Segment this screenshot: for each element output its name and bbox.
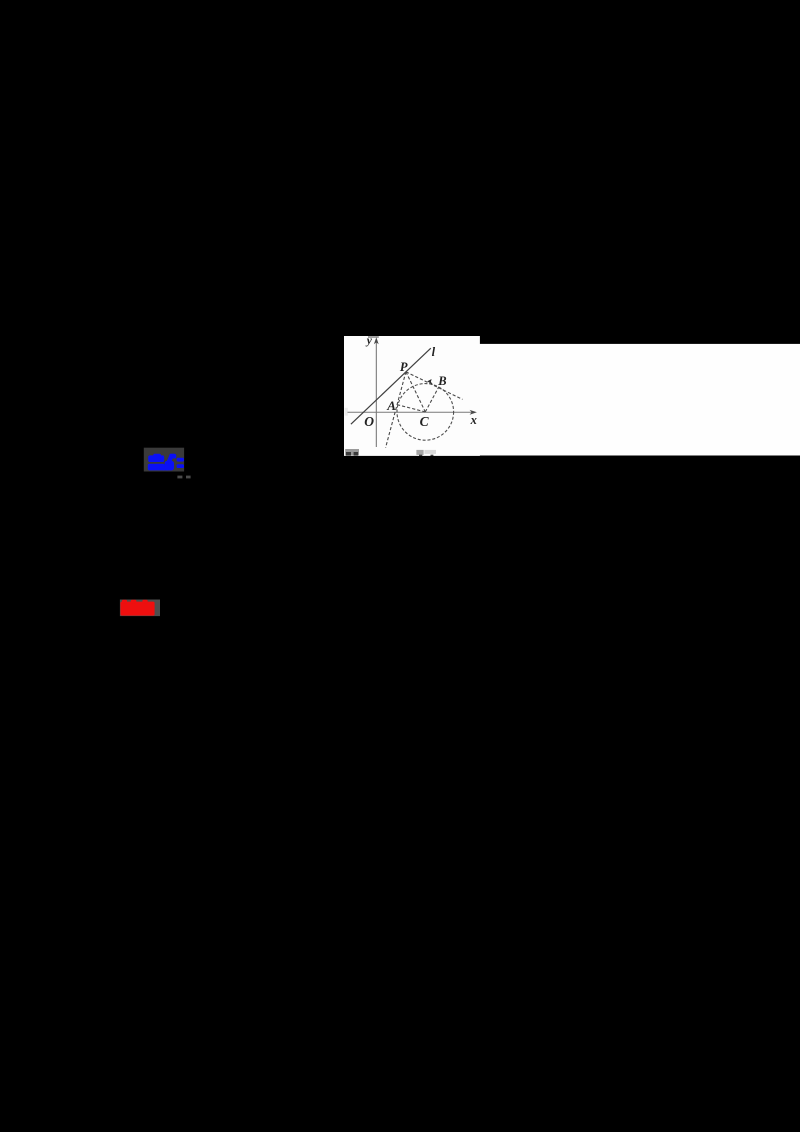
red heading highlight box xyxy=(120,600,160,617)
tangent line P through A extended downward (dashed) xyxy=(386,372,406,448)
red heading text (bold glyph shapes) xyxy=(120,600,154,616)
dark marks in bottom-left smudge xyxy=(346,452,351,456)
segment P to C (dashed) xyxy=(406,372,425,412)
cropped caption remnant bottom-middle (light grey smudge) xyxy=(416,450,423,455)
circle centered at C (dashed) xyxy=(397,384,454,441)
grey dots below blue text xyxy=(177,476,182,479)
svg-text:x: x xyxy=(470,413,477,427)
svg-text:C: C xyxy=(420,414,430,429)
svg-text:O: O xyxy=(364,414,374,429)
svg-text:l: l xyxy=(432,345,436,359)
figure image white background xyxy=(344,336,480,456)
svg-text:y: y xyxy=(365,335,373,347)
faint scan artifact column at left edge of x-axis xyxy=(345,408,348,416)
white band (wide figure background strip) xyxy=(344,344,800,456)
line l xyxy=(351,348,431,424)
svg-text:P: P xyxy=(400,360,408,374)
svg-text:B: B xyxy=(437,374,446,388)
x-axis xyxy=(348,411,472,413)
tangent line P to B extended (dashed) xyxy=(406,372,463,400)
radius C to B (dashed) xyxy=(425,387,439,412)
y-axis arrowhead xyxy=(374,337,379,344)
arrow mark at tangency point B xyxy=(427,379,433,385)
cropped text remnant above figure (grey smudge top) xyxy=(368,336,379,338)
x-axis arrowhead xyxy=(470,410,477,415)
blue answer highlight box xyxy=(144,448,184,472)
svg-text:A: A xyxy=(386,398,396,413)
blue answer text (bold glyph shapes) xyxy=(148,454,184,471)
radius C to A (dashed) xyxy=(397,405,425,412)
cropped caption remnant bottom-left (grey smudge) xyxy=(345,449,359,455)
dark marks in bottom-middle smudge xyxy=(419,455,422,456)
y-axis xyxy=(375,341,377,448)
